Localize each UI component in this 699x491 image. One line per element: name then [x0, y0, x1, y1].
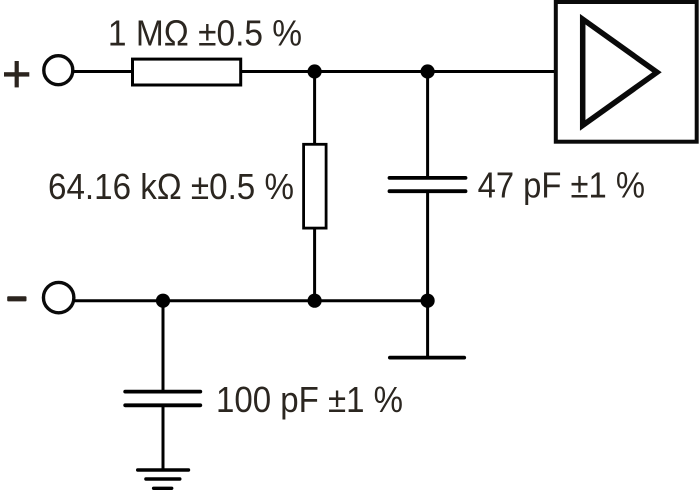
node − (negative input terminal symbol): [7, 296, 26, 301]
capacitor 47 pF ±1 % (top plate): [390, 176, 466, 180]
amplifier U1 (triangle symbol): [583, 19, 657, 125]
junction node: top wire / 47 pF capacitor: [421, 64, 435, 78]
junction node: bottom wire / 64.16 kΩ resistor: [308, 294, 322, 308]
ground symbol (middle bar): [146, 477, 180, 480]
node + (positive input terminal symbol): [4, 61, 29, 87]
resistor 1 MΩ ±0.5 % (horizontal): [133, 59, 241, 85]
svg-text:64.16 kΩ ±0.5 %: 64.16 kΩ ±0.5 %: [48, 166, 294, 207]
ground bar (47 pF return): [390, 356, 464, 360]
svg-text:100 pF ±1 %: 100 pF ±1 %: [216, 379, 403, 420]
junction node: bottom wire / 100 pF capacitor: [156, 294, 170, 308]
junction node: bottom wire / 47 pF capacitor: [421, 294, 435, 308]
ground symbol (bottom bar): [154, 487, 172, 490]
wire: bottom node down to capacitor 100 pF: [162, 301, 165, 390]
junction node: top wire / 64.16 kΩ resistor: [308, 64, 322, 78]
resistor 64.16 kΩ ±0.5 % (vertical): [304, 144, 327, 228]
capacitor 47 pF ±1 % (bottom plate): [390, 189, 466, 193]
wire: + terminal to resistor R (1 MΩ): [72, 70, 134, 73]
− input terminal circle: [43, 282, 73, 312]
svg-text:1 MΩ ±0.5 %: 1 MΩ ±0.5 %: [108, 12, 302, 53]
ground symbol (top bar): [138, 468, 189, 471]
+ input terminal circle: [44, 56, 73, 85]
wire: resistor 64.16 kΩ bottom to lower node: [313, 228, 316, 301]
capacitor 100 pF ±1 % (top plate): [125, 390, 200, 394]
wire: capacitor 100 pF bottom plate to ground: [162, 406, 165, 470]
svg-text:47 pF ±1 %: 47 pF ±1 %: [478, 165, 645, 206]
amplifier U1 (box): [556, 2, 697, 142]
wire: top node down to capacitor 47 pF: [426, 72, 429, 178]
wire: resistor (1 MΩ) to amplifier input, through top nodes: [240, 70, 555, 73]
wire: capacitor 47 pF bottom plate down to ground bar: [426, 192, 429, 358]
wire: top node down to resistor 64.16 kΩ: [313, 72, 316, 146]
capacitor 100 pF ±1 % (bottom plate): [125, 403, 200, 407]
wire: − terminal to lower node at 47 pF: [73, 299, 427, 302]
